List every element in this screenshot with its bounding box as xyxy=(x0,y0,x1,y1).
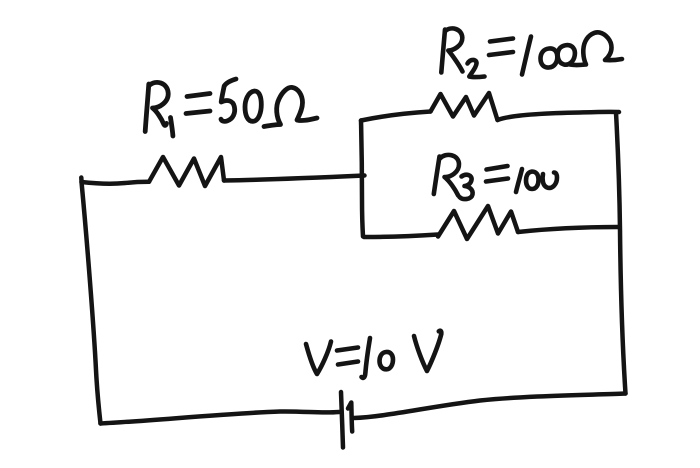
label R3 = 100 xyxy=(434,155,557,199)
digit 0 xyxy=(245,91,261,121)
resistor R1 xyxy=(149,157,224,186)
subscript 1 of R1 xyxy=(171,118,173,137)
ohm symbol xyxy=(570,32,622,65)
resistor R2 xyxy=(431,93,498,120)
wire: R2 right lead to top-right corner xyxy=(498,112,620,120)
ohm symbol xyxy=(264,87,317,126)
R glyph of R2 xyxy=(441,30,445,73)
digit 0 (first) xyxy=(526,172,539,190)
wire: bottom-left to battery positive plate xyxy=(101,411,340,423)
wire: bottom edge of box to R3 left lead xyxy=(364,235,438,238)
wire: left edge of main loop xyxy=(81,178,100,424)
equals sign xyxy=(187,94,210,97)
wire top-left: corner to R1 left lead xyxy=(82,182,150,184)
digit 1 xyxy=(362,338,371,378)
equals sign xyxy=(487,166,508,170)
digit 0 (first) xyxy=(541,48,558,67)
battery V1 negative (short) plate xyxy=(348,403,352,432)
wire: R1 right lead to node A xyxy=(224,176,365,181)
digit 0 (second, open top) xyxy=(543,173,557,188)
label R1 = 50 ohm xyxy=(145,79,317,136)
R glyph of R1 xyxy=(145,84,149,132)
digit 5 xyxy=(221,79,236,121)
digit 1 xyxy=(522,37,531,75)
wire: battery to bottom-right corner xyxy=(354,394,626,419)
R glyph of R3 xyxy=(434,157,440,195)
equals sign xyxy=(337,348,358,351)
battery V1 positive (long) plate xyxy=(341,392,343,448)
resistor R3 xyxy=(438,206,518,239)
label V = 10 V xyxy=(306,331,441,378)
digit 0 xyxy=(380,352,394,369)
label R2 = 100 ohm xyxy=(441,28,622,77)
subscript 2 of R2 xyxy=(468,60,485,77)
wire: R3 right lead to right edge (node B) xyxy=(518,227,618,232)
V glyph (unit) xyxy=(414,331,441,371)
node A / wire: left edge of parallel section xyxy=(361,121,363,237)
subscript 3 of R3 xyxy=(460,175,473,199)
wire: top edge of box to R2 left lead xyxy=(361,112,431,121)
equals sign xyxy=(490,39,513,42)
V glyph (symbol) xyxy=(306,342,331,375)
wire: right edge (top corner down to bottom-right corner) xyxy=(616,113,626,394)
digit 0 (second) xyxy=(558,45,575,65)
digit 1 xyxy=(516,169,522,192)
